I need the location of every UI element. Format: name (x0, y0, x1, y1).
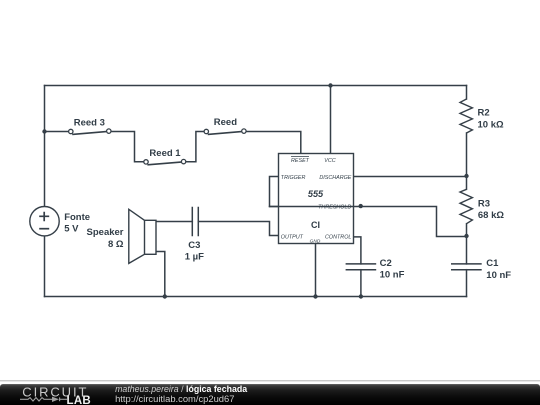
wire speaker to C3 (156, 221, 192, 223)
node speaker bottom junction (163, 294, 167, 298)
wire C2 bottom lead (360, 270, 362, 297)
svg-text:Speaker: Speaker (87, 227, 124, 238)
svg-text:10 kΩ: 10 kΩ (478, 119, 504, 130)
wire control pin to C2 (354, 237, 361, 264)
wire discharge to rail (354, 176, 467, 178)
node reed tap junction (42, 129, 46, 133)
svg-text:VCC: VCC (324, 158, 335, 164)
svg-text:GND: GND (310, 239, 321, 245)
wire trigger loop (270, 177, 279, 207)
svg-text:CI: CI (311, 220, 320, 230)
separator line above footer (0, 380, 540, 381)
wire R3 bottom lead (466, 224, 468, 237)
svg-text:Reed 3: Reed 3 (74, 117, 105, 128)
svg-text:RESET: RESET (291, 158, 310, 164)
svg-text:THRESHOLD: THRESHOLD (318, 204, 351, 210)
node R2-R3 discharge junction (464, 174, 468, 178)
svg-text:C1: C1 (486, 258, 499, 269)
svg-text:CONTROL: CONTROL (325, 235, 351, 241)
wire reed to reset pin (246, 132, 301, 154)
wire reed tap (45, 131, 70, 133)
svg-text:10 nF: 10 nF (486, 270, 511, 281)
resistor R2 (460, 99, 472, 133)
svg-text:http://circuitlab.com/cp2ud67: http://circuitlab.com/cp2ud67 (115, 393, 234, 404)
switch Reed (204, 129, 246, 134)
switch Reed 1 (144, 159, 186, 164)
capacitor C1 (451, 264, 482, 270)
wire reed1 to reed (186, 132, 205, 162)
wire left rail lower (44, 236, 46, 297)
svg-text:C3: C3 (188, 240, 200, 251)
wire left rail upper (44, 86, 46, 207)
switch Reed 3 (69, 129, 111, 134)
speaker SPK1 (129, 209, 156, 263)
wire C1 bottom lead (466, 270, 468, 297)
wire reed3 to reed1 (111, 132, 144, 162)
svg-text:Fonte: Fonte (64, 212, 90, 223)
node gnd junction (313, 294, 317, 298)
svg-text:68 kΩ: 68 kΩ (478, 210, 504, 221)
wire vcc pin to top rail (330, 86, 332, 154)
node threshold pin junction (359, 204, 363, 208)
op-amp U1 555 timer CI (270, 154, 354, 244)
svg-text:OUTPUT: OUTPUT (281, 235, 304, 241)
wire R2 top lead (466, 86, 468, 100)
capacitor C2 (346, 264, 377, 270)
svg-text:R3: R3 (478, 199, 490, 210)
svg-text:R2: R2 (478, 107, 490, 118)
wire threshold run (270, 207, 467, 237)
svg-text:Reed 1: Reed 1 (149, 148, 181, 159)
svg-text:Reed: Reed (214, 117, 237, 128)
voltage source V1 Fonte (30, 207, 59, 236)
resistor R3 (460, 189, 472, 223)
svg-text:1 µF: 1 µF (185, 252, 204, 263)
svg-text:TRIGGER: TRIGGER (281, 175, 306, 181)
svg-text:8 Ω: 8 Ω (108, 239, 124, 250)
node R3-C1 threshold junction (464, 234, 468, 238)
wire gnd pin (315, 244, 317, 297)
capacitor C3 (192, 207, 198, 236)
wire output run (198, 222, 278, 236)
wire bottom rail (45, 296, 467, 298)
svg-text:5 V: 5 V (64, 224, 79, 235)
svg-text:DISCHARGE: DISCHARGE (319, 175, 351, 181)
node C2 bottom junction (359, 294, 363, 298)
svg-text:LAB: LAB (67, 395, 92, 405)
node vcc top rail junction (328, 83, 332, 87)
wire speaker bottom (156, 252, 165, 297)
wire top rail (45, 85, 467, 87)
svg-text:555: 555 (308, 189, 324, 199)
CircuitLab logo squiggle (resistor + diode) (20, 397, 67, 401)
svg-text:10 nF: 10 nF (380, 270, 405, 281)
wire C1 top lead (466, 237, 468, 264)
wire R2 bottom lead / R3 top lead (466, 133, 468, 189)
footer bar (0, 384, 540, 405)
svg-text:C2: C2 (380, 258, 392, 269)
